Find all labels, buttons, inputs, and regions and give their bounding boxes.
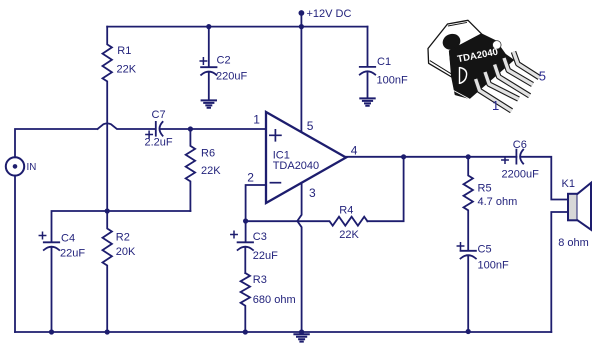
speaker K1: [568, 194, 578, 221]
wire input from IN jack: [15, 123, 155, 157]
op-amp U1 triangle: [266, 112, 346, 203]
wire top supply rail: [107, 26, 367, 28]
svg-text:2.2uF: 2.2uF: [145, 137, 173, 149]
node junction output x feedback: [401, 154, 406, 159]
svg-text:C7: C7: [152, 109, 166, 121]
node junction rail x C5: [466, 329, 471, 334]
ground at bottom rail: [294, 334, 308, 341]
value label R3: [253, 274, 296, 306]
resistor R1: [103, 27, 112, 212]
capacitor C5: [461, 251, 476, 332]
node junction rail x ground: [299, 329, 304, 334]
svg-text:C1: C1: [377, 56, 391, 68]
wire pin 5 from rail to op-amp: [300, 27, 302, 132]
capacitor C3: [238, 221, 253, 273]
svg-text:C3: C3: [253, 231, 267, 243]
value label C2: [216, 55, 247, 83]
capacitor C7: [156, 122, 163, 136]
node junction R2 top: [105, 208, 110, 213]
svg-text:100nF: 100nF: [478, 260, 509, 272]
svg-text:R4: R4: [339, 205, 353, 217]
svg-text:R6: R6: [201, 147, 215, 159]
value label R6: [201, 147, 221, 177]
svg-text:R1: R1: [117, 45, 131, 57]
node junction rail x pin5: [299, 24, 304, 29]
svg-text:C4: C4: [61, 233, 75, 245]
wire speaker return: [551, 212, 568, 332]
value label K1: [558, 178, 589, 249]
node junction rail x C2: [206, 24, 211, 29]
svg-text:IN: IN: [27, 162, 37, 173]
value label C7: [145, 109, 173, 149]
svg-text:8 ohm: 8 ohm: [558, 237, 589, 249]
package metal tab: [428, 20, 482, 77]
resistor R3: [241, 273, 250, 332]
capacitor C3 plus sign: [231, 231, 237, 237]
node junction C7 x R6: [188, 126, 193, 131]
package plastic body: [450, 34, 514, 99]
svg-text:+12V DC: +12V DC: [307, 8, 352, 20]
capacitor C6: [516, 150, 523, 164]
svg-text:22K: 22K: [339, 229, 359, 241]
node junction rail x R2: [105, 329, 110, 334]
op-amp minus input marker: [270, 182, 280, 184]
label IC1 TDA2040: [273, 150, 319, 172]
wire +12V stub: [300, 13, 302, 27]
node junction rail x C4: [49, 329, 54, 334]
resistor R2: [103, 211, 112, 332]
capacitor C4 plus sign: [39, 232, 45, 238]
svg-text:2: 2: [247, 170, 254, 184]
svg-text:22K: 22K: [117, 63, 137, 75]
svg-text:5: 5: [307, 119, 314, 133]
package pin 3 front: [495, 65, 530, 96]
wire feedback drop: [367, 157, 403, 221]
node +12V terminal dot: [299, 10, 305, 16]
wire C6 to speaker: [522, 157, 568, 200]
svg-text:20K: 20K: [116, 246, 136, 258]
value label R2: [116, 232, 136, 258]
wire pin 3 to ground with jog: [297, 183, 301, 332]
resistor R5: [464, 157, 473, 250]
package pedestal notch: [460, 67, 467, 84]
svg-text:22K: 22K: [201, 165, 221, 177]
capacitor C5 plus sign: [457, 243, 463, 249]
wire pin 2: [246, 185, 266, 221]
svg-text:4: 4: [351, 143, 358, 157]
value label R5: [478, 183, 518, 209]
value label R1: [117, 45, 137, 75]
svg-text:1: 1: [492, 98, 499, 113]
svg-text:C6: C6: [513, 139, 527, 151]
svg-text:4.7 ohm: 4.7 ohm: [478, 196, 518, 208]
wire C1 drop: [367, 27, 369, 98]
package body bottom highlight: [454, 91, 470, 100]
value label C6: [502, 139, 540, 180]
svg-text:5: 5: [539, 68, 546, 83]
value label R4: [339, 205, 359, 242]
ground under C1: [360, 98, 374, 105]
capacitor C7 plus sign: [146, 131, 152, 137]
capacitor C4: [44, 242, 59, 332]
svg-text:C2: C2: [217, 55, 231, 67]
svg-text:100nF: 100nF: [377, 75, 408, 87]
resistor R4: [246, 217, 368, 226]
connector IN jack: [6, 157, 24, 175]
value label C1: [377, 56, 408, 87]
svg-text:K1: K1: [562, 178, 575, 190]
node junction rail x R3: [243, 329, 248, 334]
wire IN jack down to ground rail: [14, 176, 16, 332]
package pin 1 front: [476, 79, 512, 111]
capacitor C6 plus sign: [502, 157, 508, 163]
capacitor C1: [360, 67, 375, 75]
wire op-amp output: [346, 156, 516, 158]
svg-text:22uF: 22uF: [60, 248, 85, 260]
wire R6 bottom to C4: [52, 211, 191, 242]
svg-text:R5: R5: [478, 183, 492, 195]
wire bottom ground rail: [15, 331, 551, 333]
package tab thickness line: [430, 61, 452, 75]
svg-text:TDA2040: TDA2040: [273, 160, 319, 172]
capacitor C2 plus sign: [200, 58, 206, 64]
svg-text:R3: R3: [253, 274, 267, 286]
node junction output x R5: [466, 154, 471, 159]
svg-text:220uF: 220uF: [216, 71, 247, 83]
svg-text:1: 1: [253, 112, 260, 126]
package pin 2 back: [485, 72, 519, 99]
svg-text:3: 3: [309, 186, 316, 200]
op-amp plus input marker: [270, 130, 281, 141]
package tab top edge thickness line: [448, 22, 467, 26]
TDA2040 package illustration: [428, 20, 546, 113]
node junction pin2 x C3 x R4: [243, 218, 248, 223]
svg-text:R2: R2: [116, 232, 130, 244]
package pin 4 back: [504, 58, 533, 85]
value label C3: [253, 231, 278, 262]
ground under C2: [202, 100, 216, 107]
value label C5: [478, 244, 509, 272]
value label C4: [60, 233, 85, 260]
capacitor C2: [201, 27, 216, 100]
resistor R6: [186, 129, 195, 211]
svg-text:22uF: 22uF: [253, 250, 278, 262]
wire C7 to pin 1: [161, 128, 266, 130]
package pin 5 front: [514, 52, 540, 78]
svg-text:680 ohm: 680 ohm: [253, 294, 296, 306]
svg-text:C5: C5: [478, 244, 492, 256]
svg-text:2200uF: 2200uF: [502, 169, 540, 181]
package body circular notch: [493, 41, 502, 50]
package tab hole: [440, 31, 463, 52]
